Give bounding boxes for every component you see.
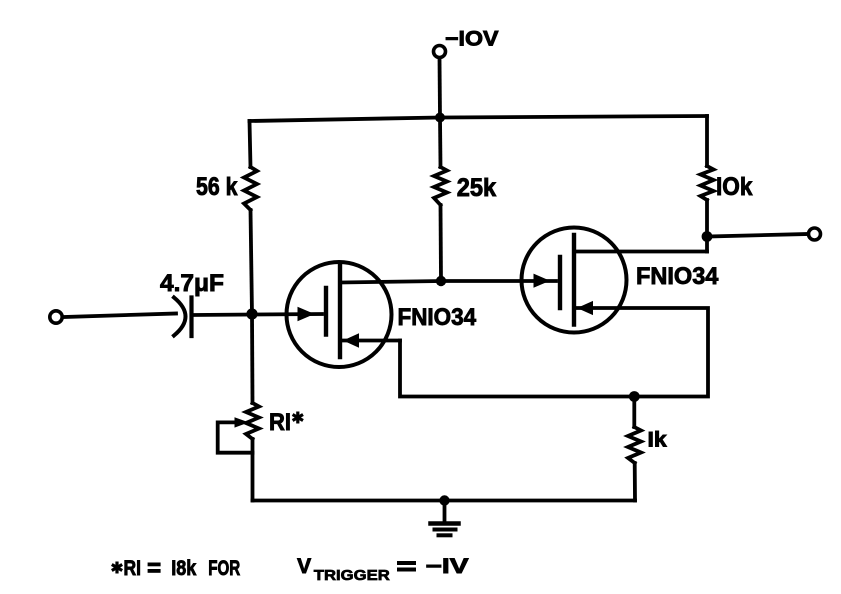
svg-text:−IV: −IV (426, 555, 469, 578)
svg-text:I8k: I8k (171, 557, 196, 580)
svg-text:TRIGGER: TRIGGER (314, 567, 390, 584)
svg-text:56 k: 56 k (196, 173, 238, 201)
svg-text:25k: 25k (457, 174, 496, 202)
svg-text:FOR: FOR (208, 557, 240, 580)
svg-text:−IOV: −IOV (445, 28, 499, 51)
svg-text:RI: RI (124, 557, 142, 580)
svg-text:RI: RI (269, 409, 291, 436)
svg-text:V: V (297, 555, 311, 578)
svg-text:4.7μF: 4.7μF (160, 270, 224, 297)
svg-text:FNIO34: FNIO34 (398, 304, 477, 331)
svg-text:Ik: Ik (648, 429, 668, 452)
svg-text:IOk: IOk (716, 173, 752, 201)
svg-text:FNIO34: FNIO34 (636, 263, 719, 290)
